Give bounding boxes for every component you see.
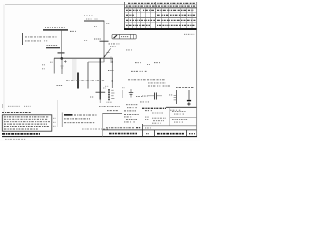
inductor L1 wire <box>176 90 178 104</box>
text under revision table <box>184 33 195 35</box>
capacitor C3 lead left <box>147 95 154 97</box>
pin label right of rail <box>106 22 110 24</box>
junction dot J1 <box>61 57 64 60</box>
capacitor C3 value <box>140 101 149 103</box>
text under bottom rail <box>170 109 181 111</box>
callout divider 3 <box>132 34 134 39</box>
right col row 1 <box>172 111 186 113</box>
title block top text row b <box>124 110 136 112</box>
stub mark near leader <box>107 52 110 54</box>
wire W6 mark b <box>108 69 111 71</box>
border frame right <box>196 2 198 137</box>
revision table bottom band <box>124 28 197 30</box>
revision table row4 rule <box>125 22 197 24</box>
capacitor C4 plus horizontal <box>187 103 190 105</box>
parts table row 6 <box>4 128 38 130</box>
mid text mark m4 <box>131 70 147 72</box>
title divider v2 <box>154 130 156 137</box>
capacitor C1 plate <box>58 52 65 54</box>
caption under border <box>5 138 26 140</box>
note column row1 text <box>74 114 97 116</box>
revision table left edge <box>124 2 126 30</box>
title block left top rule <box>103 112 123 114</box>
capacitor C4 plus vertical <box>188 102 190 105</box>
wire W3 horizontal <box>88 61 104 63</box>
pin strip bottom dots <box>107 101 113 103</box>
mid text line long <box>128 79 165 81</box>
capacitor C4 lead <box>188 90 190 100</box>
right col row 3 <box>172 119 188 121</box>
revision table header text line2 <box>126 5 196 7</box>
connector pin strip bar <box>108 89 110 101</box>
parts table row 4 <box>4 123 47 125</box>
border frame bottom <box>2 136 197 138</box>
label right of bus bar B1 <box>70 30 76 32</box>
company text row 2 <box>124 116 133 118</box>
parts table row 1 <box>4 116 49 118</box>
wire W2 contact tick <box>61 65 64 67</box>
enclosure box top edge <box>54 57 113 59</box>
revision table row3 rule <box>125 17 197 19</box>
wire W6 mark c <box>112 80 113 81</box>
notes brace <box>2 104 4 108</box>
proprietary note dark <box>2 133 40 135</box>
text above bus bar B2 <box>47 44 59 46</box>
tiny text s5 <box>126 49 132 51</box>
faint lead left of C2 <box>122 90 124 98</box>
parts table row 5 <box>4 126 49 128</box>
leader line <box>104 48 111 57</box>
scale cell <box>189 133 195 135</box>
revision table row2 rule <box>125 12 197 14</box>
note column row2 text <box>64 118 90 120</box>
revision table row5 text <box>126 24 150 26</box>
tiny label near box corner <box>50 61 53 63</box>
wire W1 vertical from B1 to C1 <box>61 31 63 53</box>
mid text line short <box>148 82 166 84</box>
faint fold line <box>57 100 59 127</box>
approvals dark chip <box>136 127 141 129</box>
enclosure box left edge <box>53 58 55 73</box>
capacitor C3 plate 2 <box>155 93 157 100</box>
text above top rail <box>86 18 92 20</box>
approvals text <box>106 127 134 129</box>
drawing number right <box>157 133 184 135</box>
label S1 <box>57 85 64 87</box>
note text line 2 <box>25 40 41 42</box>
wire W6 mark a <box>112 61 113 62</box>
capacitor C2 lead top <box>130 89 132 93</box>
wire W6 vertical right <box>111 58 113 88</box>
notes heading b <box>24 105 31 107</box>
pin tick 4 <box>111 98 114 100</box>
note bracket <box>22 33 24 45</box>
pin tick 2 <box>111 92 114 94</box>
leader arrowhead <box>104 55 106 58</box>
capacitor C4 plate thick <box>187 100 191 102</box>
comp row header text 1 <box>148 85 170 87</box>
note faint row <box>82 128 108 130</box>
switch pole S1a <box>77 73 79 89</box>
heavy wire W4 foot <box>99 100 101 104</box>
heavy wire W4 <box>99 58 101 99</box>
parts table box <box>2 115 52 131</box>
pin label under rail <box>94 25 98 27</box>
tiny text above pin strip <box>105 85 109 87</box>
plus polarity mark horizontal <box>64 61 67 63</box>
title block right top rule <box>167 106 196 108</box>
company text row 3 <box>126 118 137 120</box>
mid col row 3 <box>153 120 164 122</box>
wire W5 vertical top <box>103 21 105 62</box>
title block left edge <box>102 113 104 136</box>
note column row1 dark lead <box>64 114 73 116</box>
mechanical link dashed <box>66 80 105 82</box>
right col row 4 <box>174 121 183 123</box>
note text line2 tail <box>44 40 48 42</box>
notes heading <box>8 105 20 107</box>
border frame left <box>3 5 5 137</box>
comp row header text 2 <box>176 87 194 89</box>
cable callout strip <box>112 34 136 39</box>
capacitor C2 lead bottom <box>130 94 132 97</box>
parts table row 3 <box>4 121 50 123</box>
mid col row 4 <box>152 122 161 124</box>
right col rule <box>170 117 196 119</box>
capacitor C3 label <box>142 95 148 97</box>
revision table header rule <box>125 7 197 9</box>
wire W6 tick <box>111 69 113 71</box>
approvals rule right <box>143 125 197 127</box>
rotated marks right of table 3 <box>53 125 56 127</box>
pin tick 3 <box>111 95 113 97</box>
revision table row3 text <box>126 14 134 16</box>
callout divider 1 <box>119 34 121 39</box>
capacitor C2 value row2 <box>127 107 137 109</box>
connector crossbar X1 <box>100 40 109 42</box>
stub arrow A2 <box>110 57 112 64</box>
drawing number left <box>109 133 137 135</box>
company small col b <box>145 119 149 121</box>
company text row 1 <box>124 113 139 115</box>
tiny mark far left of crossbar <box>84 40 88 42</box>
leader text <box>109 43 122 45</box>
revision table row2 text <box>126 9 140 11</box>
mid text mark m2 <box>147 64 150 66</box>
leader text line2 <box>110 45 116 47</box>
company text row 4 <box>124 121 135 123</box>
inductor L1 label <box>169 94 173 96</box>
wire W2 contact tick2 <box>61 67 63 69</box>
callout text <box>121 36 129 38</box>
connector crossbar X2 <box>96 91 106 93</box>
border frame top <box>5 4 196 6</box>
tiny label col left 2 <box>42 68 46 70</box>
capacitor C3 plate 1 <box>154 93 156 100</box>
capacitor C1 lead <box>61 53 63 58</box>
callout divider 2 <box>130 34 132 39</box>
rotated marks right of table <box>53 117 56 119</box>
small cell text <box>146 133 149 135</box>
text above top rail b <box>95 18 99 20</box>
title divider v3 <box>186 130 188 137</box>
text above bus bar B1 <box>45 27 66 29</box>
title block top text row <box>107 110 118 112</box>
note column brace <box>61 113 63 128</box>
mid col row 1 <box>152 112 163 114</box>
label left of crossbar X1 <box>94 38 101 40</box>
dark net label <box>142 107 166 109</box>
capacitor C2 label <box>136 96 142 98</box>
shading band <box>72 59 77 80</box>
revision table column dividers <box>129 2 193 28</box>
dots above top rail <box>84 15 93 17</box>
mid text mark m3 <box>154 62 160 64</box>
bus bar B1 <box>43 29 68 30</box>
approvals right text <box>145 127 151 129</box>
note column row3 text <box>64 122 95 124</box>
tiny mark below switch <box>90 96 94 98</box>
title block divider mid <box>169 107 171 126</box>
text row under center <box>99 106 120 108</box>
bottom rail right <box>166 106 196 108</box>
rotated marks right of table 2 <box>53 121 56 123</box>
capacitor C3 lead right <box>157 95 162 97</box>
tiny label col left <box>42 64 46 66</box>
capacitor C2 plate 2 <box>130 93 133 95</box>
mid text mark m1 <box>135 62 141 64</box>
switch pole S1b wire <box>87 62 89 89</box>
top rail <box>84 20 104 22</box>
revision table row4 text <box>126 19 155 21</box>
inner wire W2 <box>61 58 63 74</box>
bottom row top rule <box>103 129 197 131</box>
inductor L1 turns <box>174 96 177 100</box>
note text line 1 <box>25 36 57 38</box>
bus bar B2 <box>46 47 60 48</box>
right col row 2 <box>174 113 184 115</box>
title divider v1 <box>142 124 144 137</box>
mid col row 2 <box>152 117 166 119</box>
capacitor C2 value row1 <box>126 104 138 106</box>
title block top text row c <box>145 110 152 112</box>
notes line 1 <box>2 112 31 114</box>
parts table row 2 <box>4 118 48 120</box>
callout flag mark <box>114 35 117 38</box>
tick near link end <box>103 87 106 89</box>
revision table header text line1 <box>128 2 196 4</box>
capacitor C2 plate 1 <box>129 92 133 94</box>
company small col a <box>145 116 150 118</box>
plus polarity mark vertical <box>64 60 66 63</box>
pin tick 1 <box>111 89 113 91</box>
tiny text right low <box>122 87 125 89</box>
